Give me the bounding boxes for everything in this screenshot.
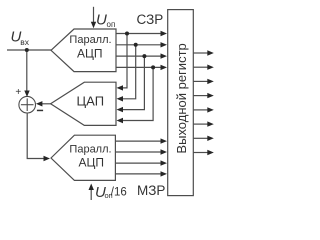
node bit4 dot [151,65,155,69]
wire DAC output to summer [41,103,51,105]
wire register out 3 [193,80,208,82]
register output register block [168,10,194,196]
wire summer output down and right to ADC2 [27,113,44,159]
arrowhead into ADC2 tip [44,156,51,161]
wire Uvx input line [7,49,51,51]
wire feedback bit4 to DAC [122,67,153,120]
arrowhead Uop16 up [89,184,94,191]
ADC1 parallel ADC block [51,29,116,72]
wire register out 2 [193,66,208,68]
wire register out 8 [193,152,208,154]
ADC2 parallel ADC block [51,135,115,180]
arrowheads feedback into DAC [117,85,124,90]
wire ADC1 out bit2 [116,44,162,46]
arrowheads ADC2 bits into register [161,138,168,143]
wire ADC2 out bit4 [115,173,161,175]
wire feedback bit3 to DAC [122,56,144,110]
label minus sign [37,110,43,112]
node bit1 dot [125,32,129,36]
svg-text:АЦП: АЦП [78,156,104,170]
arrowhead into summer right [36,101,43,106]
svg-text:Паралл.: Паралл. [69,34,111,46]
arrowheads register outputs [207,50,214,55]
wire ADC1 out bit4 [116,66,162,68]
wire ADC2 out bit2 [115,151,161,153]
node bit2 dot [134,43,138,47]
wire Uop arrow line [93,7,95,23]
wire ADC2 out bit1 [115,140,161,142]
svg-text:/16: /16 [111,187,127,199]
svg-text:вх: вх [20,37,30,47]
node input junction dot [25,48,29,52]
arrowheads ADC1 bits into register [161,31,168,36]
wire ADC1 out bit1 [116,33,162,35]
wire register out 7 [193,137,208,139]
svg-text:СЗР: СЗР [137,12,164,27]
node bit3 dot [142,54,146,58]
DAC block [51,82,116,125]
svg-text:+: + [15,87,21,98]
wire vertical from input node to summer [26,50,28,91]
wire ADC2 out bit3 [115,162,161,164]
arrowhead into summer top [24,91,29,98]
summer adder circle [19,96,36,113]
wire register out 1 [193,52,208,54]
wire ADC1 out bit3 [116,55,162,57]
wire Uop16 arrow line [90,189,92,200]
label Uvx [11,29,30,48]
svg-text:АЦП: АЦП [77,47,103,61]
wire feedback bit1 to DAC [122,34,127,88]
wire feedback bit2 to DAC [122,45,136,99]
svg-text:оп: оп [107,20,116,29]
arrowhead Uop down [91,22,96,29]
svg-text:Паралл.: Паралл. [69,144,111,156]
wire register out 4 [193,95,208,97]
label Uop top [96,11,115,29]
svg-text:U: U [96,11,107,28]
svg-text:Выходной регистр: Выходной регистр [174,43,189,153]
wire register out 6 [193,123,208,125]
svg-text:ЦАП: ЦАП [77,94,105,109]
svg-text:МЗР: МЗР [137,183,165,198]
label Uop/16 bottom [95,184,127,201]
wire register out 5 [193,109,208,111]
